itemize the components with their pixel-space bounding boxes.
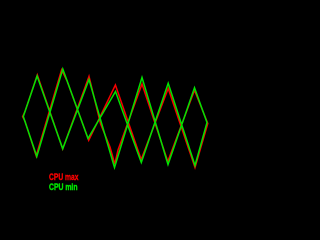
chart canvas <box>0 0 209 224</box>
green min polyline <box>23 69 207 168</box>
red max polyline (drawn first, peeks out from behind green) <box>23 70 208 168</box>
svg-text:CPU min: CPU min <box>49 182 78 193</box>
